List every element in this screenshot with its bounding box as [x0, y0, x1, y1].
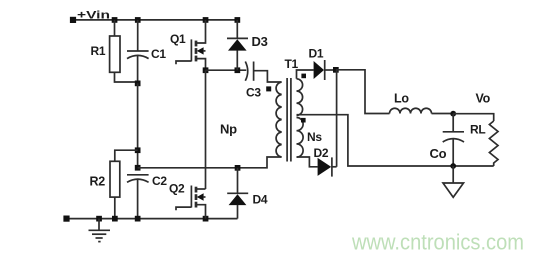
wire Q1 source lead: [196, 59, 206, 71]
node R2 tap junction: [135, 147, 141, 153]
svg-text:RL: RL: [470, 123, 485, 137]
svg-text:Lo: Lo: [394, 92, 409, 106]
wire D4 anode lead: [237, 205, 239, 219]
node +Vin input terminal: [70, 17, 76, 23]
wire midpoint to primary bottom: [138, 157, 282, 168]
capacitor C3: [245, 62, 253, 81]
wire top rail +Vin: [73, 19, 237, 21]
wire D3 top lead: [236, 20, 238, 39]
diode D2: [318, 157, 332, 176]
svg-text:C2: C2: [152, 174, 167, 188]
node bottom-left input terminal: [63, 216, 69, 222]
node D4 tap junction: [235, 165, 241, 171]
wire R2 top lead: [115, 150, 138, 161]
svg-text:C3: C3: [246, 86, 261, 100]
transformer T1 primary winding Np: [276, 82, 282, 157]
wire D1 cathode lead: [325, 69, 336, 71]
wire R1 top lead: [114, 20, 116, 36]
wire switch node to C3: [206, 69, 247, 71]
wire Q2 drain lead: [196, 188, 206, 190]
ground output chassis: [443, 183, 464, 197]
svg-text:Vo: Vo: [476, 92, 491, 106]
wire secondary top lead: [297, 70, 314, 79]
transistor Q2: [176, 186, 206, 211]
wire D4 cathode lead: [237, 168, 239, 194]
resistor R2: [110, 161, 120, 197]
node top rail / D3 junction: [235, 17, 241, 23]
capacitor Co: [443, 132, 464, 142]
resistor R1: [110, 36, 120, 72]
node top rail / C1 junction: [135, 17, 141, 23]
node D1 cathode junction: [333, 67, 339, 73]
wire C3 to primary top: [254, 71, 282, 82]
wire output node to RL: [453, 114, 494, 121]
node top rail / Q1 drain junction: [203, 17, 209, 23]
svg-text:Ns: Ns: [307, 130, 322, 144]
wire secondary bottom lead: [297, 157, 318, 167]
transformer T1 secondary winding Ns bottom half: [297, 118, 304, 158]
svg-text:T1: T1: [285, 57, 299, 71]
transistor Q1: [176, 39, 206, 64]
wire C1 bottom lead: [137, 56, 139, 84]
svg-text:Co: Co: [430, 146, 447, 161]
capacitor C1: [127, 51, 149, 59]
svg-text:www.cntronics.com: www.cntronics.com: [351, 229, 524, 254]
node C1/R1 midpoint junction: [135, 81, 141, 87]
svg-text:D1: D1: [309, 47, 324, 61]
wire R2 bottom lead: [114, 197, 116, 219]
node C2 bottom junction: [135, 216, 141, 222]
transformer core: [287, 78, 291, 162]
wire switch node vertical (Q2 drain riser): [205, 70, 207, 189]
svg-text:Q1: Q1: [170, 32, 186, 46]
wire D1-D2 cathode vertical: [336, 70, 338, 167]
wire rectifier output to Lo: [336, 70, 390, 114]
svg-text:D2: D2: [314, 146, 329, 160]
node Co bottom junction: [450, 163, 456, 169]
resistor RL: [489, 121, 498, 166]
wire Lo to output node: [432, 113, 454, 115]
wire Q2 source lead: [196, 205, 206, 219]
node top rail / R1 junction: [112, 17, 118, 23]
svg-text:R2: R2: [90, 175, 106, 189]
node D3 anode junction: [235, 67, 241, 73]
node C2 top / midpoint wire junction: [135, 165, 141, 171]
svg-text:R1: R1: [91, 44, 106, 58]
node switch node (Q1 source): [203, 67, 209, 73]
wire Co bottom lead: [452, 139, 454, 166]
svg-text:C1: C1: [151, 47, 166, 61]
wire D3 anode lead: [236, 50, 238, 70]
diode D1: [314, 60, 325, 80]
inductor Lo: [390, 108, 432, 113]
diode D4: [227, 193, 248, 205]
node primary polarity dot: [266, 86, 271, 91]
node secondary bottom polarity dot: [301, 118, 306, 123]
wire center tap lead: [297, 115, 494, 166]
svg-text:Np: Np: [220, 122, 237, 137]
node secondary top polarity dot: [301, 74, 306, 79]
wire Q1 drain lead: [196, 20, 206, 43]
node ground tap junction: [96, 216, 102, 222]
node Q2 source junction: [203, 216, 209, 222]
node R2 bottom junction: [112, 216, 118, 222]
wire D2 cathode lead: [332, 166, 337, 168]
transformer T1 secondary winding Ns top half: [297, 79, 303, 116]
wire C1 top lead: [137, 20, 139, 51]
wire Co top lead: [452, 114, 454, 132]
svg-text:Q2: Q2: [169, 182, 185, 196]
svg-text:+Vin: +Vin: [77, 10, 110, 22]
diode D3: [227, 38, 248, 50]
svg-text:D3: D3: [252, 34, 268, 49]
wire C2 bottom lead: [137, 179, 139, 218]
wire bottom rail: [67, 218, 238, 220]
ground: [89, 219, 111, 242]
wire divider mid branch: [137, 83, 139, 167]
svg-text:D4: D4: [253, 193, 268, 207]
wire R1 bottom lead: [115, 72, 138, 82]
node output junction Vo: [450, 111, 456, 117]
wire output ground stub: [452, 166, 454, 183]
capacitor C2: [127, 175, 149, 183]
